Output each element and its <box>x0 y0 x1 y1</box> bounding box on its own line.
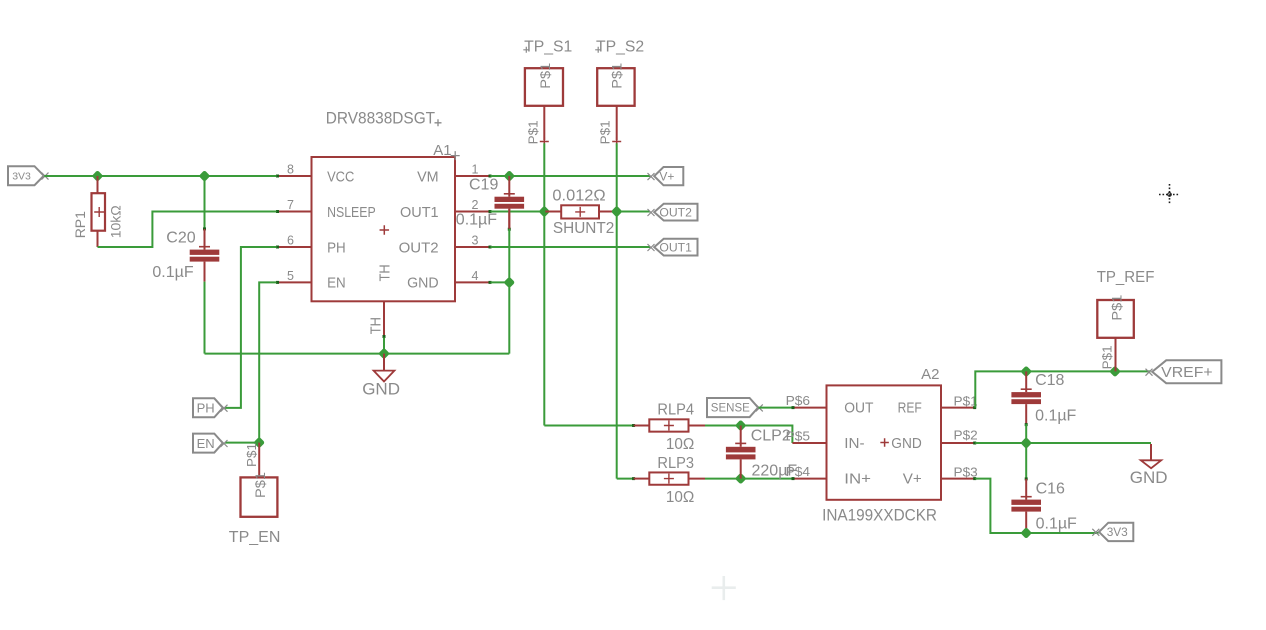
svg-text:PH: PH <box>197 400 215 415</box>
A1 pin 8 stub <box>276 163 312 178</box>
svg-text:0.1µF: 0.1µF <box>1035 408 1076 425</box>
junction 3V3 at C20 <box>199 170 211 182</box>
svg-text:P$1: P$1 <box>537 63 553 89</box>
A2 pin P$6 stub OUT <box>786 393 827 409</box>
resistor RLP4 10ohm <box>632 419 705 431</box>
svg-text:V+: V+ <box>903 470 922 487</box>
A1 pin 7 stub <box>276 198 312 213</box>
wire PH pin 6 to PH tag <box>225 247 277 408</box>
junction gnd bus at GND symbol <box>378 348 390 360</box>
svg-text:P$1: P$1 <box>252 472 268 498</box>
testpoint TP_S1 square <box>525 63 563 106</box>
A1 designator label <box>433 142 460 160</box>
svg-text:RP1: RP1 <box>72 211 88 238</box>
svg-text:C20: C20 <box>166 230 195 247</box>
A2 pin P$2 stub GND <box>941 428 978 445</box>
wire RLP4 row left <box>544 425 633 427</box>
svg-text:C18: C18 <box>1035 372 1064 389</box>
A2 pin P$4 stub IN+ <box>786 464 827 480</box>
junction 3V3 at C16 <box>1020 527 1032 539</box>
net tag VREF+ <box>1146 360 1222 383</box>
svg-text:10Ω: 10Ω <box>666 489 694 506</box>
wire OUT1 pin 2 to shunt <box>491 211 545 213</box>
svg-text:3V3: 3V3 <box>12 170 31 182</box>
TP_S1 name label <box>523 39 572 56</box>
svg-text:3: 3 <box>472 234 479 248</box>
svg-text:5: 5 <box>287 269 294 283</box>
TP_S2 pin stub <box>598 106 622 146</box>
svg-text:C19: C19 <box>469 177 498 194</box>
svg-text:VM: VM <box>417 168 439 185</box>
svg-text:VREF+: VREF+ <box>1161 364 1213 381</box>
svg-text:4: 4 <box>472 269 479 283</box>
testpoint TP_EN square <box>241 472 278 517</box>
A1 pin 6 stub <box>276 234 312 249</box>
svg-text:P$5: P$5 <box>786 428 811 443</box>
svg-text:EN: EN <box>197 436 215 451</box>
wire REF pin up to VREF+ tag <box>975 371 1150 407</box>
A1 part title DRV8838DSGT <box>326 109 442 127</box>
wire C20 bottom to gnd bus <box>204 282 206 354</box>
svg-text:GND: GND <box>891 435 922 452</box>
wire gnd bus <box>205 353 510 355</box>
svg-text:8: 8 <box>287 163 294 177</box>
svg-text:P$4: P$4 <box>786 464 811 479</box>
svg-text:10Ω: 10Ω <box>666 436 694 453</box>
svg-text:P$3: P$3 <box>954 465 978 480</box>
svg-text:GND: GND <box>1130 468 1168 487</box>
svg-text:GND: GND <box>407 275 439 292</box>
junction CLP2 top <box>735 420 747 432</box>
svg-text:IN-: IN- <box>844 435 864 452</box>
A1 pin 2 stub <box>455 198 492 213</box>
svg-text:P$1: P$1 <box>954 393 978 408</box>
junction 3V3 at RP1 <box>92 170 104 182</box>
cursor crosshair dotted <box>1159 184 1180 205</box>
svg-text:10kΩ: 10kΩ <box>108 205 124 238</box>
wire gnd junction down to C16 <box>1025 443 1027 479</box>
resistor RLP3 10ohm <box>632 472 705 484</box>
svg-text:TH: TH <box>368 317 385 334</box>
IC A1 DRV8838DSGT box <box>312 157 456 301</box>
svg-text:RLP3: RLP3 <box>657 455 694 472</box>
A2 pin P$5 stub IN- <box>786 428 827 443</box>
svg-text:P$1: P$1 <box>525 120 540 144</box>
svg-text:0.012Ω: 0.012Ω <box>552 187 605 204</box>
wire GND pin P$2 to ground symbol <box>975 442 1151 444</box>
capacitor C19 0.1uF <box>495 176 525 231</box>
A1 pin 5 stub <box>276 269 312 284</box>
net tag OUT1 <box>648 239 698 256</box>
wire CLP2 junction to IN- pin <box>741 426 793 444</box>
wire OUT2 pin 3 to OUT1 tag <box>491 246 651 248</box>
svg-text:RLP4: RLP4 <box>657 402 694 419</box>
TP_S1 pin stub <box>525 106 549 146</box>
svg-text:7: 7 <box>287 198 294 212</box>
svg-text:OUT1: OUT1 <box>659 240 692 254</box>
junction VREF at C18 <box>1020 366 1032 378</box>
svg-text:OUT1: OUT1 <box>400 204 439 221</box>
TP_S2 name label <box>595 39 644 56</box>
junction pin4 gnd at C19 chain <box>503 277 515 289</box>
ground symbol GND left <box>362 354 400 399</box>
svg-text:SENSE: SENSE <box>711 403 750 415</box>
wire SENSE to OUT pin <box>759 407 793 409</box>
svg-text:EN: EN <box>327 275 346 292</box>
wire <box>204 176 206 229</box>
svg-text:C16: C16 <box>1036 480 1065 497</box>
junction shunt right / TP_S2 <box>611 206 623 218</box>
net tag 3V3 left <box>8 166 49 185</box>
wire TP_S1 down to RLP4 row <box>543 143 545 425</box>
wire EN pin 5 to EN tag and TP_EN <box>225 282 277 442</box>
svg-text:IN+: IN+ <box>844 470 871 487</box>
svg-text:0.1µF: 0.1µF <box>1036 516 1077 533</box>
svg-text:GND: GND <box>362 380 400 399</box>
svg-text:0.1µF: 0.1µF <box>456 212 497 229</box>
svg-text:TP_S1: TP_S1 <box>524 39 572 56</box>
svg-text:REF: REF <box>898 399 922 416</box>
junction CLP2 bottom <box>735 473 747 485</box>
testpoint TP_S2 square <box>597 63 634 106</box>
wire V+ pin P$3 to 3V3 tag <box>975 479 1098 533</box>
svg-text:P$1: P$1 <box>244 443 259 467</box>
A1 pin 4 stub <box>455 269 492 284</box>
svg-text:TP_EN: TP_EN <box>229 529 281 546</box>
wire C18 bottom to gnd row <box>1025 424 1027 443</box>
svg-text:OUT2: OUT2 <box>659 205 692 219</box>
svg-text:2: 2 <box>472 198 479 212</box>
svg-text:P$1: P$1 <box>1100 345 1115 369</box>
svg-text:VCC: VCC <box>327 168 354 185</box>
svg-text:OUT: OUT <box>844 399 873 416</box>
wire <box>1025 532 1027 533</box>
wire TP_S2 down to RLP3 row <box>616 143 618 478</box>
junction shunt left / TP_S1 <box>538 206 550 218</box>
A2 pin P$3 stub V+ <box>941 465 978 481</box>
A1 pin 3 stub <box>455 234 492 249</box>
wire 3V3 to VCC pin 8 <box>44 175 276 177</box>
svg-text:6: 6 <box>287 234 294 248</box>
junction V+ at C19 <box>503 170 515 182</box>
resistor SHUNT2 0.012ohm <box>544 205 616 218</box>
A1 pin 1 stub <box>455 163 492 178</box>
svg-text:P$2: P$2 <box>954 428 978 443</box>
svg-text:A1: A1 <box>433 142 451 159</box>
A2 pin P$1 stub REF <box>941 393 978 409</box>
svg-text:INA199XXDCKR: INA199XXDCKR <box>822 507 937 525</box>
wire RLP3 to IN+ pin <box>705 478 792 480</box>
A1 pin names <box>327 168 439 291</box>
ground symbol GND right <box>1130 444 1168 487</box>
svg-text:NSLEEP: NSLEEP <box>327 204 376 221</box>
svg-text:A2: A2 <box>921 366 939 383</box>
svg-text:P$1: P$1 <box>609 63 625 89</box>
TP_REF pin stub <box>1100 338 1116 372</box>
svg-text:DRV8838DSGT: DRV8838DSGT <box>326 109 435 127</box>
sheet frame cross faint <box>712 576 736 600</box>
junction gnd row at C18/C16 <box>1020 437 1032 449</box>
svg-text:P$1: P$1 <box>1108 294 1124 320</box>
svg-text:V+: V+ <box>659 169 674 183</box>
svg-text:3V3: 3V3 <box>1107 525 1128 539</box>
net tag SENSE <box>707 398 763 417</box>
wire GND pin 4 <box>491 281 510 283</box>
wire RLP4 to CLP2 junction <box>705 425 741 427</box>
net tag EN <box>193 434 228 453</box>
junction EN at TP_EN <box>253 437 265 449</box>
svg-text:OUT2: OUT2 <box>399 239 439 256</box>
wire RP1 bottom to NSLEEP pin 7 <box>98 212 277 248</box>
wire VM pin1 to V+ tag <box>491 175 651 177</box>
svg-text:0.1µF: 0.1µF <box>152 264 193 281</box>
svg-text:SHUNT2: SHUNT2 <box>553 220 614 237</box>
svg-text:TP_S2: TP_S2 <box>596 39 644 56</box>
svg-text:TP_REF: TP_REF <box>1097 269 1155 286</box>
resistor RP1 10k pullup <box>92 176 106 247</box>
testpoint TP_EN pin stub <box>244 443 259 478</box>
svg-text:TH: TH <box>376 264 393 281</box>
net tag V+ <box>648 167 684 185</box>
svg-text:P$6: P$6 <box>786 393 811 408</box>
net tag 3V3 right <box>1092 523 1133 541</box>
svg-text:P$1: P$1 <box>598 120 613 144</box>
IC A2 INA199XXDCKR box <box>827 385 942 499</box>
wire RLP3 row left <box>617 478 634 480</box>
wire shunt to OUT2 tag <box>617 211 650 213</box>
net tag OUT2 <box>648 204 698 221</box>
junction VREF at TP_REF <box>1109 366 1121 378</box>
net tag PH <box>193 398 228 417</box>
A2 pin names <box>844 399 922 487</box>
svg-text:1: 1 <box>472 163 479 177</box>
svg-text:PH: PH <box>327 239 346 256</box>
capacitor C19 lower pin overlay <box>508 209 510 229</box>
testpoint TP_REF square <box>1097 294 1134 337</box>
A1 TH pin stub bottom <box>368 301 386 353</box>
capacitor CLP2 220uF <box>726 426 756 479</box>
capacitor C20 0.1uF <box>190 176 220 282</box>
capacitor C18 0.1uF <box>1011 371 1041 426</box>
capacitor C16 0.1uF <box>1011 477 1041 531</box>
wire C19 bottom to pin4/gnd bus <box>508 229 510 354</box>
